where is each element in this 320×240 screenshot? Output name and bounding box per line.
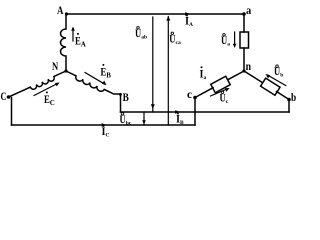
wire C lead down to rail2	[11, 98, 13, 126]
current arrow I_B on rail1	[175, 110, 180, 114]
svg-text:EA: EA	[75, 34, 86, 49]
voltage arrow U_bc	[143, 112, 145, 125]
wire branch n to c	[195, 71, 244, 98]
node C	[7, 95, 11, 99]
voltage arrow U_a	[234, 32, 236, 46]
node B	[119, 93, 122, 96]
svg-text:n: n	[246, 59, 252, 73]
EMF arrow E_C	[34, 84, 58, 96]
svg-text:B: B	[123, 90, 129, 104]
wire rail1 B line	[121, 111, 290, 113]
node N	[64, 69, 67, 72]
svg-text:EB: EB	[101, 65, 112, 80]
EMF arrow E_A	[72, 29, 74, 42]
node c	[193, 96, 197, 100]
svg-text:a: a	[246, 3, 251, 17]
svg-text:EC: EC	[44, 92, 55, 107]
voltage arrow U_ab line	[152, 17, 154, 112]
voltage arrow U_b	[267, 75, 286, 86]
EMF arrow E_B	[85, 73, 105, 85]
winding source phase A	[61, 14, 67, 71]
node b	[287, 98, 291, 102]
wire rail2 C line	[12, 124, 196, 126]
impedance Z_c box	[211, 76, 230, 92]
svg-text:A: A	[57, 3, 64, 17]
current arrow I_C on rail2	[102, 123, 107, 127]
wire b lead down to rail1	[288, 100, 290, 113]
wire top rail A to a	[66, 13, 244, 15]
svg-text:b: b	[291, 90, 296, 104]
svg-text:Ia: Ia	[200, 67, 207, 82]
svg-text:N: N	[52, 59, 58, 73]
wire c lead down to rail2	[194, 98, 196, 126]
wire Z_a to n	[243, 48, 245, 71]
node n	[242, 69, 245, 72]
winding source phase B	[66, 71, 121, 94]
svg-text:c: c	[187, 87, 193, 101]
voltage arrow U_c	[211, 89, 228, 96]
wire a lead down	[243, 14, 245, 32]
node A	[65, 12, 68, 15]
wire branch n to b	[244, 71, 289, 100]
current arrow I_A on rail A	[185, 12, 190, 16]
winding source phase C	[9, 71, 67, 97]
svg-text:C: C	[1, 89, 7, 103]
impedance Z_a box	[240, 32, 249, 48]
node a	[242, 12, 246, 16]
impedance Z_b box	[261, 78, 280, 95]
wire B lead down to rail1	[120, 94, 122, 112]
voltage arrow U_ca line	[167, 17, 169, 126]
